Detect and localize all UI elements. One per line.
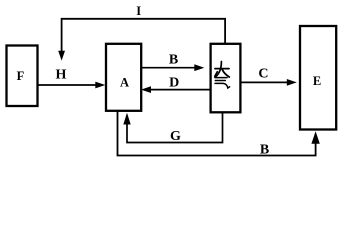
glyph 气	[215, 72, 230, 88]
arrowhead of bottom B pointing up into E	[311, 131, 319, 144]
svg-text:I: I	[136, 4, 141, 18]
glyph 大	[215, 62, 229, 78]
arrow D: atmosphere to A	[141, 86, 211, 93]
arrowhead of G pointing up into A	[123, 113, 130, 125]
svg-text:F: F	[17, 69, 25, 83]
arrowhead of I pointing down	[58, 51, 65, 61]
svg-text:B: B	[169, 53, 178, 68]
box F	[7, 46, 38, 107]
wire B bottom: A bottom, down, right, up into E	[118, 112, 316, 156]
svg-text:A: A	[120, 76, 129, 90]
wire I: top feedback line from above atmosphere to above H	[62, 19, 226, 52]
wire G: atmosphere bottom, down, left, up into A	[127, 113, 223, 143]
svg-text:G: G	[170, 129, 181, 144]
box E	[300, 26, 336, 130]
arrow C: atmosphere to E	[241, 79, 297, 86]
box A	[106, 44, 141, 111]
arrow B: A to atmosphere	[142, 64, 204, 71]
svg-text:D: D	[169, 76, 179, 91]
arrow H: F to A	[39, 82, 106, 89]
svg-text:C: C	[258, 67, 268, 82]
svg-text:H: H	[56, 68, 67, 83]
box atmosphere (大气)	[211, 44, 241, 113]
svg-text:B: B	[260, 143, 269, 158]
svg-text:E: E	[313, 74, 321, 88]
